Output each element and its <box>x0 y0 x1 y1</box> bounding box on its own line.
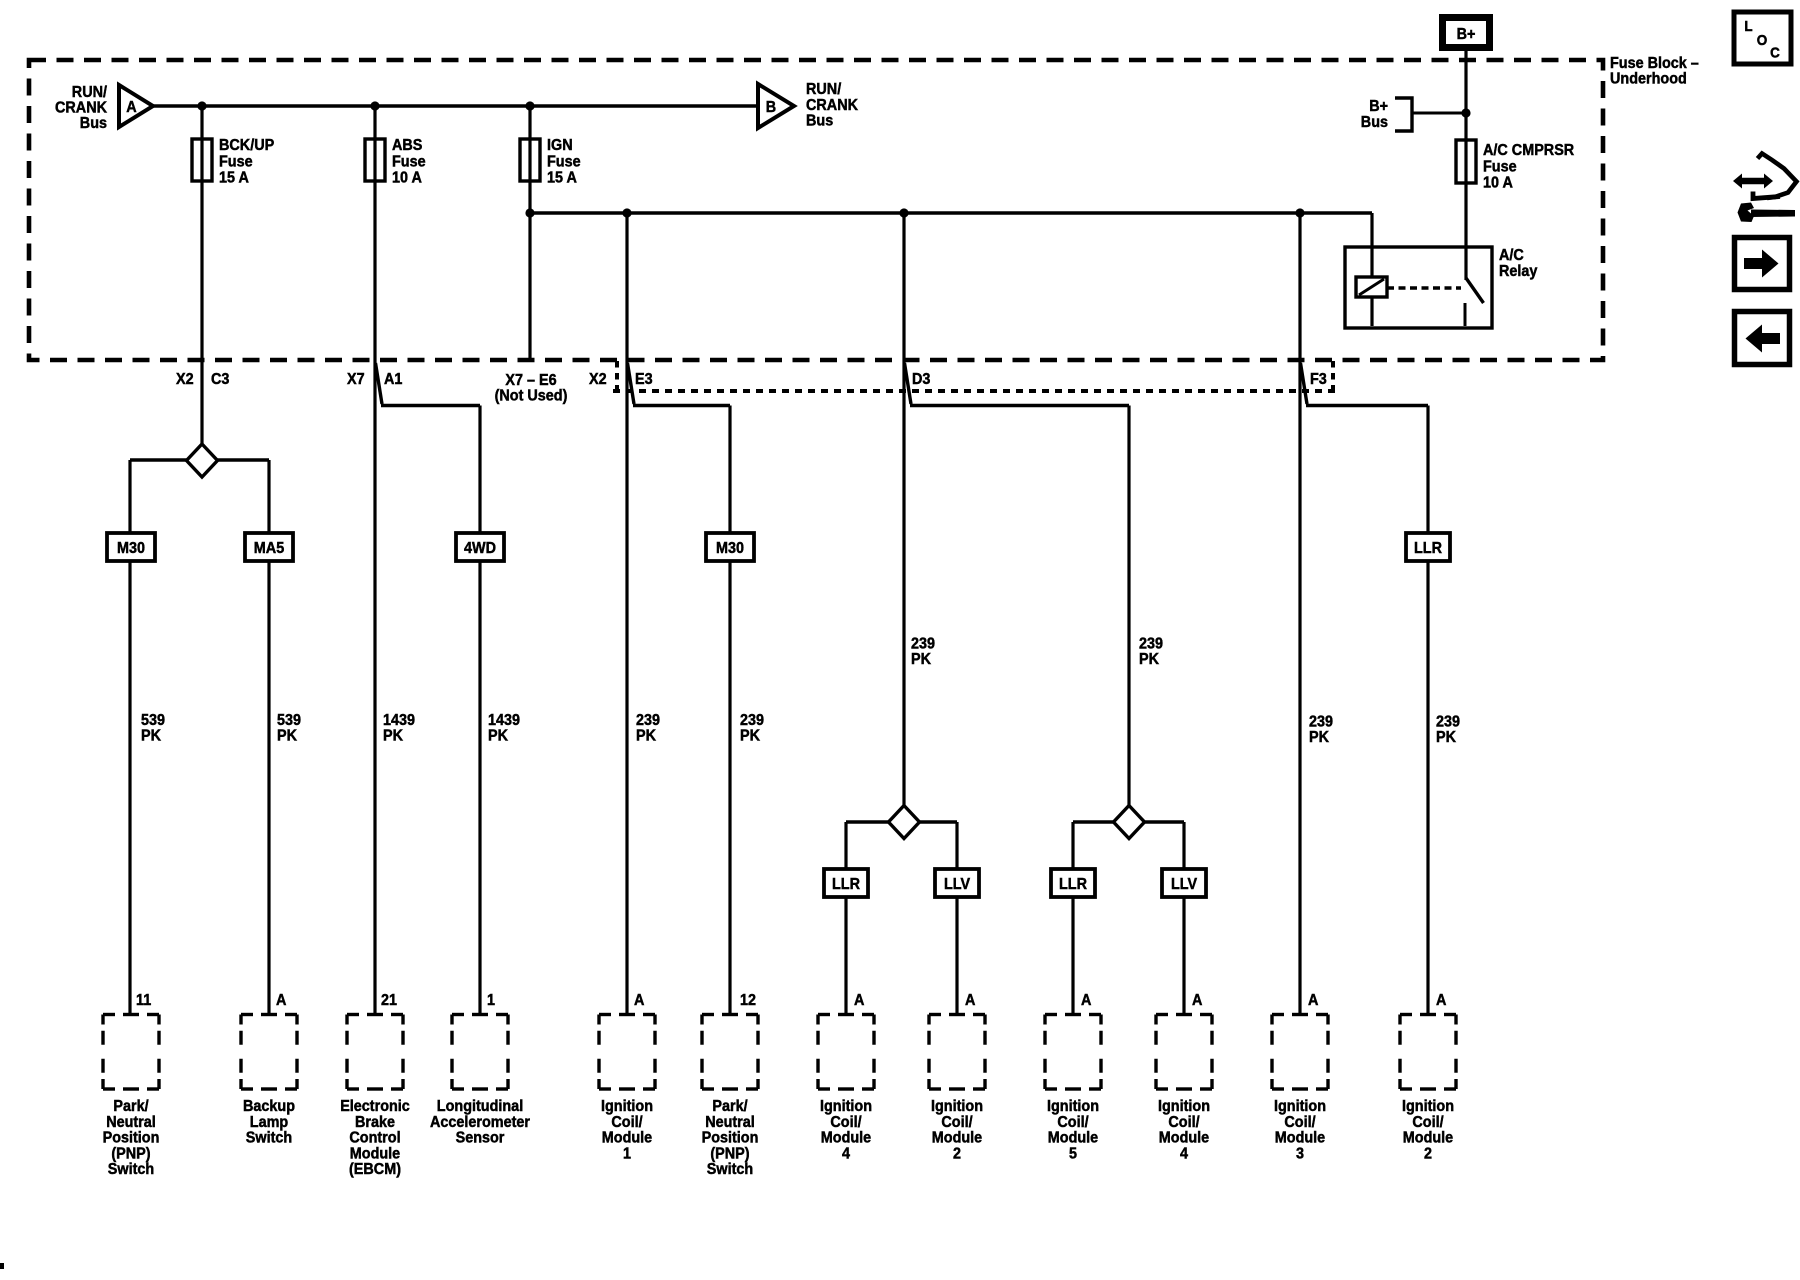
svg-text:O: O <box>1757 32 1768 49</box>
splice diamond S3 <box>1114 806 1145 839</box>
svg-text:Underhood: Underhood <box>1610 71 1687 88</box>
wire M30 to PNP switch pin 11 <box>128 561 131 1015</box>
label longitudinal accelerometer sensor <box>430 1098 530 1147</box>
svg-text:Switch: Switch <box>108 1161 154 1178</box>
junction dot rail F3 <box>1295 208 1304 217</box>
svg-text:PK: PK <box>1436 729 1456 746</box>
wire F3 to ignition coil 3 <box>1298 213 1301 1015</box>
wire M30 to PNP switch pin 12 <box>728 561 731 1015</box>
svg-text:B+: B+ <box>1369 98 1388 115</box>
svg-text:Position: Position <box>103 1130 160 1147</box>
connector X2 dotted outline <box>613 361 1337 391</box>
fuse block underhood dashed border <box>29 60 1603 360</box>
svg-text:Module: Module <box>350 1145 400 1162</box>
svg-text:Neutral: Neutral <box>106 1114 156 1131</box>
svg-text:Module: Module <box>1048 1130 1098 1147</box>
connector M30 (backup col1) <box>107 533 155 561</box>
svg-text:Coil/: Coil/ <box>941 1114 973 1131</box>
wire label 239 PK col6 <box>740 712 764 745</box>
svg-text:A: A <box>126 99 137 116</box>
svg-text:Electronic: Electronic <box>340 1098 410 1115</box>
svg-text:Brake: Brake <box>355 1114 395 1131</box>
component dashed box ignition coil module 2b <box>1400 1015 1456 1090</box>
fuse IGN 15A <box>520 137 581 187</box>
svg-text:(PNP): (PNP) <box>710 1145 749 1162</box>
svg-text:Coil/: Coil/ <box>830 1114 862 1131</box>
svg-text:Relay: Relay <box>1499 263 1537 280</box>
svg-text:239: 239 <box>911 636 935 653</box>
wire IGN fuse to connector X7-E6 <box>528 106 531 360</box>
svg-text:PK: PK <box>636 728 656 745</box>
svg-text:Ignition: Ignition <box>1158 1098 1210 1115</box>
svg-text:2: 2 <box>953 1145 961 1162</box>
svg-text:PK: PK <box>488 728 508 745</box>
svg-text:(EBCM): (EBCM) <box>349 1161 401 1178</box>
branch kink at E3 <box>628 363 635 404</box>
terminal B+ box <box>1443 18 1490 48</box>
wire label 539 PK col1 <box>141 712 165 745</box>
splice diamond S2 <box>889 806 920 839</box>
svg-text:CRANK: CRANK <box>55 100 107 117</box>
connector LLV (coil2) <box>935 869 979 897</box>
relay coil-contact dashed link <box>1387 286 1461 289</box>
pin A label for ignition coil module 4b <box>1192 992 1203 1009</box>
node A label RUN/CRANK Bus <box>55 84 107 132</box>
svg-text:A: A <box>1436 992 1447 1009</box>
svg-text:3: 3 <box>1296 1145 1304 1162</box>
wire BCK/UP fuse to splice <box>200 106 203 445</box>
svg-text:Neutral: Neutral <box>705 1114 755 1131</box>
wire D3 to splice S2 <box>902 213 905 808</box>
svg-text:1439: 1439 <box>383 712 415 729</box>
component dashed box ignition coil module 1 <box>599 1015 655 1090</box>
label ignition coil module 4 <box>820 1098 872 1162</box>
branch kink at F3 <box>1301 363 1308 404</box>
svg-text:L: L <box>1744 18 1752 35</box>
svg-text:LLR: LLR <box>1059 876 1087 893</box>
bus tap triangle A <box>119 85 153 127</box>
svg-text:239: 239 <box>1309 714 1333 731</box>
wire branch E3 to M30 <box>633 406 730 535</box>
svg-text:239: 239 <box>1139 636 1163 653</box>
svg-text:Fuse: Fuse <box>1483 158 1517 175</box>
svg-text:C: C <box>1770 45 1780 62</box>
svg-text:B: B <box>766 99 776 116</box>
svg-text:239: 239 <box>636 712 660 729</box>
B+ bus bracket symbol <box>1395 98 1412 131</box>
wire splice S2 to LLV <box>920 822 958 870</box>
svg-text:2: 2 <box>1424 1145 1432 1162</box>
junction dot IGN tap <box>525 101 534 110</box>
wire splice to MA5 right <box>218 460 270 534</box>
svg-text:M30: M30 <box>117 540 145 557</box>
wire label 239 PK D3 branch <box>1139 636 1163 669</box>
svg-text:X2: X2 <box>176 371 194 388</box>
connector LLR (coil5) <box>1051 869 1095 897</box>
svg-text:Switch: Switch <box>246 1130 292 1147</box>
fuse BCK/UP 15A <box>192 137 274 187</box>
svg-text:A: A <box>1192 992 1203 1009</box>
svg-text:15 A: 15 A <box>219 170 249 187</box>
svg-text:RUN/: RUN/ <box>72 84 108 101</box>
svg-text:A/C: A/C <box>1499 247 1524 264</box>
svg-text:11: 11 <box>136 992 151 1009</box>
wire E3 to ignition coil 1 <box>625 213 628 1015</box>
splice diamond S1 <box>187 444 218 477</box>
node B label RUN/CRANK Bus <box>806 81 858 130</box>
svg-text:Accelerometer: Accelerometer <box>430 1114 530 1131</box>
svg-text:5: 5 <box>1069 1145 1077 1162</box>
svg-text:LLR: LLR <box>1414 540 1442 557</box>
svg-text:Module: Module <box>1275 1130 1325 1147</box>
svg-text:12: 12 <box>740 992 756 1009</box>
relay A/C box <box>1345 247 1537 328</box>
pin A label for backup lamp switch <box>276 992 287 1009</box>
icon diagnostic scribble (wrench + arrows) <box>1733 154 1797 223</box>
svg-text:Module: Module <box>932 1130 982 1147</box>
svg-text:M30: M30 <box>716 540 744 557</box>
svg-text:C3: C3 <box>211 371 229 388</box>
label ignition coil module 2 <box>931 1098 983 1162</box>
label PNP switch 2 <box>702 1098 759 1178</box>
relay coil <box>1356 277 1387 297</box>
wire relay coil feed <box>1370 213 1373 326</box>
svg-text:PK: PK <box>383 728 403 745</box>
svg-text:PK: PK <box>911 651 931 668</box>
svg-text:PK: PK <box>740 728 760 745</box>
connector X2 pin E3 labels <box>589 371 653 388</box>
pin 1 label for longitudinal accelerometer sensor <box>487 992 495 1009</box>
svg-text:15 A: 15 A <box>547 170 577 187</box>
component dashed box PNP switch 1 <box>103 1015 159 1090</box>
svg-text:539: 539 <box>141 712 165 729</box>
svg-text:LLV: LLV <box>944 876 970 893</box>
svg-text:Ignition: Ignition <box>931 1098 983 1115</box>
svg-text:Lamp: Lamp <box>250 1114 289 1131</box>
svg-text:Backup: Backup <box>243 1098 295 1115</box>
component dashed box ignition coil module 3 <box>1272 1015 1328 1090</box>
svg-text:Position: Position <box>702 1130 759 1147</box>
wire branch A1 to 4WD <box>381 406 480 535</box>
pin 21 label for EBCM <box>381 992 397 1009</box>
svg-text:X7 – E6: X7 – E6 <box>505 372 556 389</box>
svg-text:Bus: Bus <box>806 113 833 130</box>
svg-text:Fuse: Fuse <box>392 153 426 170</box>
wire LLR to ignition coil 5 pin A <box>1071 897 1074 1015</box>
svg-text:Fuse: Fuse <box>547 153 581 170</box>
svg-text:A: A <box>854 992 865 1009</box>
connector pin D3 label <box>912 371 930 388</box>
svg-text:PK: PK <box>277 728 297 745</box>
component dashed box ignition coil module 2 <box>929 1015 985 1090</box>
wire LLR to ignition coil 2b pin A <box>1426 561 1429 1015</box>
component dashed box longitudinal accelerometer sensor <box>452 1015 508 1090</box>
connector 4WD <box>456 533 504 561</box>
svg-text:4WD: 4WD <box>464 540 496 557</box>
component dashed box ignition coil module 5 <box>1045 1015 1101 1090</box>
svg-text:Longitudinal: Longitudinal <box>437 1098 523 1115</box>
junction dot rail IGN <box>525 208 534 217</box>
label ignition coil module 2b <box>1402 1098 1454 1162</box>
relay switch contact <box>1464 303 1467 326</box>
svg-text:Fuse Block –: Fuse Block – <box>1610 55 1699 72</box>
svg-text:Bus: Bus <box>1361 114 1388 131</box>
junction dot B+ bus <box>1461 108 1470 117</box>
svg-text:LLR: LLR <box>832 876 860 893</box>
wire splice S3 to LLR <box>1073 822 1114 870</box>
svg-text:539: 539 <box>277 712 301 729</box>
bus tap triangle B <box>758 84 794 128</box>
svg-text:A: A <box>965 992 976 1009</box>
component dashed box PNP switch 2 <box>702 1015 758 1090</box>
svg-text:BCK/UP: BCK/UP <box>219 137 274 154</box>
svg-text:Module: Module <box>602 1130 652 1147</box>
svg-text:A: A <box>276 992 287 1009</box>
svg-text:F3: F3 <box>1310 371 1327 388</box>
connector LLV (coil4) <box>1162 869 1206 897</box>
svg-text:Ignition: Ignition <box>1047 1098 1099 1115</box>
junction dot ABS tap <box>370 101 379 110</box>
label ignition coil module 1 <box>601 1098 653 1162</box>
component dashed box backup lamp switch <box>241 1015 297 1090</box>
wire MA5 to backup lamp switch pin A <box>267 561 270 1015</box>
svg-text:X7: X7 <box>347 371 365 388</box>
wire 4WD to accelerometer pin 1 <box>478 561 481 1015</box>
svg-text:239: 239 <box>1436 714 1460 731</box>
svg-text:Ignition: Ignition <box>1402 1098 1454 1115</box>
svg-text:Coil/: Coil/ <box>1168 1114 1200 1131</box>
branch kink at A1 <box>376 363 383 404</box>
pin A label for ignition coil module 4 <box>854 992 865 1009</box>
wire label 239 PK F3 branch <box>1436 714 1460 747</box>
svg-text:MA5: MA5 <box>254 540 284 557</box>
icon arrow-left box <box>1735 312 1790 365</box>
junction dot BCK/UP tap <box>197 101 206 110</box>
wire ABS fuse to EBCM <box>373 106 376 1015</box>
svg-text:4: 4 <box>842 1145 850 1162</box>
svg-text:Coil/: Coil/ <box>611 1114 643 1131</box>
wire splice S3 to LLV <box>1145 822 1185 870</box>
svg-text:239: 239 <box>740 712 764 729</box>
wire label 1439 PK col3 <box>383 712 415 745</box>
label ignition coil module 5 <box>1047 1098 1099 1162</box>
fuse ABS 10A <box>365 137 426 187</box>
svg-text:A: A <box>1081 992 1092 1009</box>
wire branch F3 to LLR <box>1306 406 1428 535</box>
svg-text:Module: Module <box>1403 1130 1453 1147</box>
svg-text:Park/: Park/ <box>712 1098 748 1115</box>
svg-text:PK: PK <box>141 728 161 745</box>
branch kink at D3 <box>905 363 912 404</box>
pin A label for ignition coil module 5 <box>1081 992 1092 1009</box>
svg-text:A1: A1 <box>384 371 402 388</box>
component dashed box EBCM <box>347 1015 403 1090</box>
connector X7 pin A1 labels <box>347 371 402 388</box>
svg-text:IGN: IGN <box>547 137 573 154</box>
svg-text:1: 1 <box>623 1145 631 1162</box>
svg-text:Coil/: Coil/ <box>1412 1114 1444 1131</box>
svg-text:Ignition: Ignition <box>601 1098 653 1115</box>
connector X2 pin C3 labels <box>176 371 229 388</box>
wire RUN/CRANK bus horizontal <box>153 104 758 107</box>
svg-text:Fuse: Fuse <box>219 153 253 170</box>
junction dot rail D3 <box>899 208 908 217</box>
svg-text:Coil/: Coil/ <box>1057 1114 1089 1131</box>
pin A label for ignition coil module 2b <box>1436 992 1447 1009</box>
wire LLV to ignition coil 4b pin A <box>1182 897 1185 1015</box>
label backup lamp switch <box>243 1098 295 1147</box>
wire label 539 PK col2 <box>277 712 301 745</box>
svg-text:Coil/: Coil/ <box>1284 1114 1316 1131</box>
svg-text:Park/: Park/ <box>113 1098 149 1115</box>
label ignition coil module 3 <box>1274 1098 1326 1162</box>
svg-text:E3: E3 <box>635 371 653 388</box>
svg-text:(Not Used): (Not Used) <box>495 388 568 405</box>
svg-text:21: 21 <box>381 992 397 1009</box>
svg-text:Control: Control <box>349 1130 400 1147</box>
svg-text:ABS: ABS <box>392 137 423 154</box>
pin A label for ignition coil module 1 <box>634 992 645 1009</box>
pin A label for ignition coil module 3 <box>1308 992 1319 1009</box>
svg-text:LLV: LLV <box>1171 876 1197 893</box>
svg-text:Ignition: Ignition <box>820 1098 872 1115</box>
svg-text:D3: D3 <box>912 371 930 388</box>
pin 12 label for PNP switch 2 <box>740 992 756 1009</box>
wire label 1439 PK col4 <box>488 712 520 745</box>
svg-text:RUN/: RUN/ <box>806 81 842 98</box>
label PNP switch 1 <box>103 1098 160 1178</box>
svg-text:(PNP): (PNP) <box>111 1145 150 1162</box>
wire label 239 PK col5 <box>636 712 660 745</box>
svg-text:PK: PK <box>1139 651 1159 668</box>
connector pin F3 label <box>1310 371 1327 388</box>
wire splice S2 to LLR <box>846 822 889 870</box>
svg-text:Switch: Switch <box>707 1161 753 1178</box>
label EBCM <box>340 1098 410 1178</box>
connector MA5 <box>245 533 293 561</box>
svg-text:Sensor: Sensor <box>456 1130 505 1147</box>
connector X7-E6 not used label <box>495 372 568 405</box>
wire branch D3 to splice S3 <box>910 406 1129 809</box>
icon LOC box <box>1734 12 1791 64</box>
wire B+ bus link <box>1412 112 1466 115</box>
wire ignition rail <box>530 211 1372 214</box>
pin 11 label for PNP switch 1 <box>136 992 151 1009</box>
svg-text:1: 1 <box>487 992 495 1009</box>
wire label 239 PK F3 <box>1309 714 1333 747</box>
wire LLV to ignition coil 2 pin A <box>955 897 958 1015</box>
svg-text:X2: X2 <box>589 371 607 388</box>
svg-text:PK: PK <box>1309 729 1329 746</box>
pin A label for ignition coil module 2 <box>965 992 976 1009</box>
wire LLR to ignition coil 4 pin A <box>844 897 847 1015</box>
junction dot rail E3 <box>622 208 631 217</box>
svg-text:Module: Module <box>821 1130 871 1147</box>
wire label 239 PK D3 <box>911 636 935 669</box>
component dashed box ignition coil module 4b <box>1156 1015 1212 1090</box>
connector LLR (coil4) <box>824 869 868 897</box>
relay switch blade <box>1466 278 1484 303</box>
svg-text:1439: 1439 <box>488 712 520 729</box>
svg-text:Bus: Bus <box>80 115 107 132</box>
svg-text:A: A <box>1308 992 1319 1009</box>
fuse A/C CMPRSR 10A <box>1456 140 1575 192</box>
connector LLR (coil2b) <box>1406 533 1450 561</box>
svg-text:CRANK: CRANK <box>806 97 858 114</box>
label ignition coil module 4b <box>1158 1098 1210 1162</box>
connector M30 (PNP col6) <box>706 533 754 561</box>
fuse block label <box>1610 55 1699 88</box>
svg-text:10 A: 10 A <box>1483 175 1513 192</box>
wire B+ down to relay switch <box>1464 50 1467 280</box>
svg-text:A: A <box>634 992 645 1009</box>
svg-text:B+: B+ <box>1457 26 1476 43</box>
svg-text:Ignition: Ignition <box>1274 1098 1326 1115</box>
svg-text:10 A: 10 A <box>392 170 422 187</box>
svg-text:Module: Module <box>1159 1130 1209 1147</box>
icon arrow-right box <box>1735 238 1790 290</box>
svg-text:4: 4 <box>1180 1145 1188 1162</box>
svg-text:A/C CMPRSR: A/C CMPRSR <box>1483 142 1575 159</box>
wire splice to M30 left <box>130 460 187 534</box>
page corner mark <box>0 1263 4 1269</box>
component dashed box ignition coil module 4 <box>818 1015 874 1090</box>
node B+ Bus label <box>1361 98 1388 131</box>
